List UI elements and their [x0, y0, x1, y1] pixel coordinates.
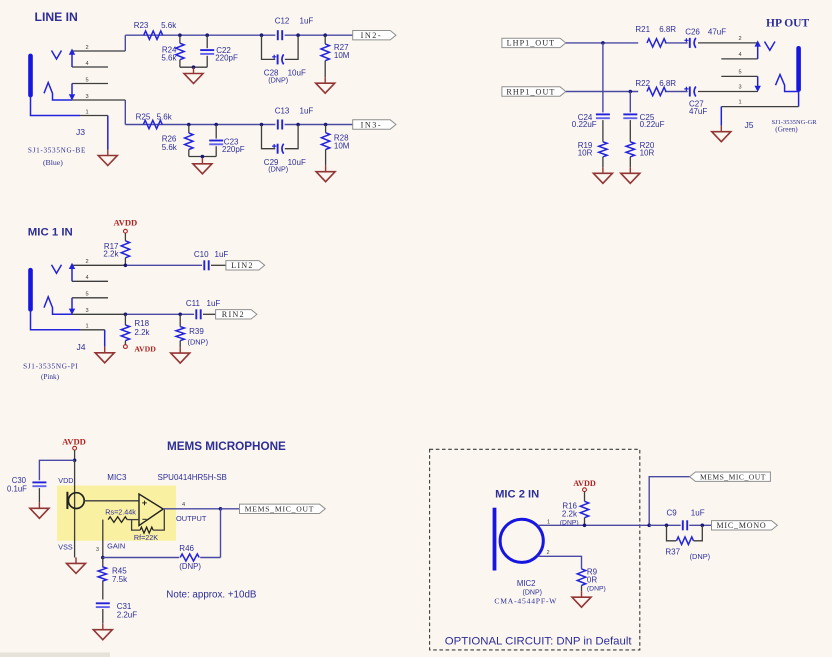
- svg-text:1: 1: [85, 109, 88, 115]
- J4 pin 2 stub: [72, 264, 125, 266]
- svg-text:OUTPUT: OUTPUT: [176, 514, 207, 523]
- svg-text:5.6k: 5.6k: [157, 113, 173, 122]
- ground C30: [38, 502, 40, 508]
- svg-text:10uF: 10uF: [288, 69, 306, 78]
- net flag RHP1_OUT: [502, 87, 566, 96]
- svg-text:2.2k: 2.2k: [134, 328, 150, 337]
- svg-text:IN2-: IN2-: [361, 31, 382, 40]
- svg-text:AVDD: AVDD: [114, 217, 138, 227]
- ground R39: [179, 347, 181, 353]
- svg-text:C9: C9: [667, 508, 678, 517]
- ground row B: [201, 158, 203, 164]
- resistor R45: [98, 558, 128, 600]
- wire VDD to VSS vertical: [74, 460, 76, 557]
- svg-text:R46: R46: [179, 544, 194, 553]
- resistor R24: [161, 35, 184, 67]
- svg-text:2.2k: 2.2k: [103, 249, 119, 258]
- capacitor C30: [7, 476, 46, 502]
- node row L junction: [601, 41, 605, 45]
- svg-text:MEMS_MIC_OUT: MEMS_MIC_OUT: [245, 505, 315, 514]
- svg-text:Rf=22K: Rf=22K: [134, 533, 158, 542]
- power AVDD mic2: [573, 479, 596, 492]
- svg-text:R21: R21: [635, 25, 650, 34]
- svg-text:1: 1: [547, 519, 550, 525]
- svg-text:OPTIONAL CIRCUIT: DNP in Defau: OPTIONAL CIRCUIT: DNP in Default: [445, 635, 633, 647]
- svg-text:(Green): (Green): [775, 126, 798, 134]
- net flag IN2-: [353, 31, 396, 40]
- wire row R main: [566, 91, 638, 93]
- J4 pin 5 stub: [72, 297, 108, 299]
- svg-text:1uF: 1uF: [207, 299, 221, 308]
- op-amp U1: [139, 494, 163, 526]
- ground R28: [325, 166, 327, 172]
- svg-text:1uF: 1uF: [215, 250, 229, 259]
- svg-text:6.8R: 6.8R: [659, 79, 676, 88]
- capacitor C10: [194, 250, 228, 271]
- svg-text:C10: C10: [194, 250, 209, 259]
- node row B junction 2: [214, 123, 218, 127]
- wire op-amp output: [163, 508, 220, 510]
- highlight box MIC3: [57, 486, 176, 541]
- J3 pin 5 stub: [72, 83, 108, 85]
- svg-text:2.2uF: 2.2uF: [117, 610, 138, 619]
- svg-text:MEMS MICROPHONE: MEMS MICROPHONE: [167, 440, 286, 453]
- svg-text:(DNP): (DNP): [179, 562, 201, 571]
- svg-text:SJ1-3535NG-PI: SJ1-3535NG-PI: [23, 362, 78, 370]
- connector J3 audio jack: [28, 54, 80, 116]
- svg-text:J4: J4: [76, 342, 85, 352]
- svg-text:7.5k: 7.5k: [112, 575, 128, 584]
- svg-text:6.8R: 6.8R: [659, 25, 676, 34]
- svg-text:0R: 0R: [587, 576, 597, 585]
- svg-text:Rs=2.44k: Rs=2.44k: [105, 507, 136, 516]
- microphone MIC2: [493, 508, 544, 571]
- net flag LHP1_OUT: [502, 38, 566, 47]
- capacitor C25 shunt: [623, 92, 664, 142]
- wire row LIN2: [125, 264, 202, 266]
- capacitor C26: [684, 28, 726, 48]
- wire row A main: [125, 34, 275, 36]
- node row A junction 4: [296, 33, 300, 37]
- net flag IN3-: [353, 120, 396, 129]
- svg-text:J3: J3: [76, 127, 85, 137]
- resistor R17: [103, 233, 129, 265]
- svg-text:2: 2: [546, 550, 549, 556]
- ground row A: [193, 68, 195, 74]
- wire output to flag: [221, 508, 240, 510]
- svg-text:3: 3: [738, 85, 741, 91]
- J3 pin 1 stub: [80, 115, 108, 117]
- ground R20: [629, 167, 631, 173]
- capacitor C31: [96, 602, 137, 624]
- svg-text:C13: C13: [275, 106, 290, 115]
- resistor R22: [635, 79, 676, 96]
- svg-text:2: 2: [738, 36, 741, 42]
- node row A junction 5: [323, 33, 327, 37]
- node R39 junction: [178, 313, 182, 317]
- J5 ring contact: [755, 75, 799, 93]
- svg-text:MIC3: MIC3: [107, 473, 127, 482]
- node R26 C23 gnd junction: [201, 155, 205, 159]
- svg-text:R18: R18: [134, 319, 149, 328]
- svg-text:4: 4: [738, 52, 741, 58]
- node R24 C22 gnd junction: [192, 65, 196, 69]
- node mic mono junction: [647, 524, 651, 528]
- svg-text:AVDD: AVDD: [134, 344, 156, 353]
- svg-text:10R: 10R: [640, 149, 655, 158]
- svg-text:VDD: VDD: [58, 476, 73, 485]
- wire GAIN row to R46: [103, 557, 179, 559]
- svg-text:IN3-: IN3-: [361, 120, 382, 129]
- J3 ring contact: [44, 83, 75, 101]
- svg-text:(DNP): (DNP): [690, 552, 711, 561]
- svg-text:1uF: 1uF: [691, 508, 705, 517]
- resistor R37 DNP bypass: [665, 525, 710, 561]
- wire MIC2 pin1 row: [538, 524, 650, 526]
- node row B junction 4: [296, 123, 300, 127]
- page edge shading bottom left: [0, 653, 110, 657]
- capacitor C22: [200, 35, 238, 67]
- svg-text:4: 4: [182, 502, 185, 508]
- svg-text:HP OUT: HP OUT: [766, 17, 809, 29]
- svg-text:1uF: 1uF: [300, 17, 314, 26]
- J5 pin 5 stub: [721, 75, 757, 77]
- wire R24 C22 bottom: [180, 66, 207, 68]
- J3 sleeve ground: [98, 116, 117, 166]
- wire node to C9: [649, 524, 681, 526]
- node row B junction 1: [187, 123, 191, 127]
- resistor R27: [321, 35, 350, 77]
- net flag LIN2: [226, 261, 265, 270]
- wire AVDD down: [74, 450, 76, 460]
- power AVDD below R18: [124, 344, 157, 353]
- node row B junction 5: [324, 123, 328, 127]
- svg-text:VSS: VSS: [58, 543, 73, 552]
- wire mic to op-amp: [84, 500, 139, 502]
- svg-text:AVDD: AVDD: [573, 479, 596, 488]
- power AVDD mems: [62, 437, 86, 451]
- node R17 junction: [124, 264, 128, 268]
- wire MIC2 pin2: [538, 556, 582, 569]
- svg-text:4: 4: [85, 61, 88, 67]
- svg-text:C26: C26: [685, 28, 700, 37]
- svg-text:0.1uF: 0.1uF: [7, 484, 27, 493]
- svg-text:Note: approx. +10dB: Note: approx. +10dB: [166, 589, 257, 600]
- svg-text:AVDD: AVDD: [62, 437, 86, 447]
- svg-text:3: 3: [85, 308, 88, 314]
- svg-text:5.6k: 5.6k: [162, 143, 178, 152]
- svg-text:MIC2: MIC2: [517, 579, 536, 588]
- J4 pin 3 stub: [72, 313, 125, 315]
- resistor R16 DNP: [560, 492, 589, 527]
- ground R27: [324, 77, 326, 83]
- capacitor C23: [209, 125, 245, 157]
- wire J3 pin2 to row A: [124, 35, 126, 51]
- svg-text:C12: C12: [275, 17, 290, 26]
- wire C10 to flag: [211, 264, 226, 266]
- capacitor C12: [275, 17, 314, 41]
- svg-text:SPU0414HR5H-SB: SPU0414HR5H-SB: [158, 473, 227, 482]
- svg-text:3: 3: [96, 547, 99, 553]
- connector J4 audio jack: [28, 268, 80, 330]
- wire row L main: [566, 42, 638, 44]
- svg-text:220pF: 220pF: [222, 145, 245, 154]
- svg-text:10M: 10M: [334, 141, 350, 150]
- capacitor C28 DNP bypass: [262, 35, 306, 84]
- svg-text:5.6k: 5.6k: [161, 54, 177, 63]
- svg-text:10R: 10R: [578, 149, 593, 158]
- resistor R19: [578, 141, 607, 168]
- svg-text:SJ1-3535NG-BE: SJ1-3535NG-BE: [28, 146, 86, 154]
- svg-text:R37: R37: [665, 547, 680, 556]
- J5 tip contact: [755, 40, 776, 59]
- wire C9 to flag: [689, 524, 711, 526]
- svg-text:4: 4: [85, 275, 88, 281]
- J3 pin 2 stub: [72, 50, 125, 52]
- resistor R28: [321, 125, 349, 166]
- resistor R9 DNP: [577, 568, 605, 593]
- ground R19: [602, 167, 604, 173]
- svg-text:10uF: 10uF: [288, 158, 306, 167]
- J3 pin 4 stub: [72, 66, 108, 68]
- node row B junction 3: [260, 123, 264, 127]
- svg-text:R23: R23: [134, 21, 149, 30]
- svg-text:R22: R22: [635, 79, 650, 88]
- J5 pin 1 stub: [721, 106, 798, 108]
- resistor R46 DNP: [179, 544, 220, 571]
- capacitor C27: [684, 87, 707, 117]
- J4 pin 1 stub: [80, 329, 105, 331]
- svg-text:10M: 10M: [334, 51, 350, 60]
- svg-text:5.6k: 5.6k: [161, 21, 177, 30]
- J5 pin 4 stub: [721, 58, 757, 60]
- svg-text:2.2k: 2.2k: [562, 509, 578, 518]
- resistor R23: [134, 21, 178, 40]
- J4 pin 4 stub: [72, 280, 108, 282]
- node row A junction 1: [178, 33, 182, 37]
- svg-text:R25: R25: [136, 113, 151, 122]
- svg-text:47uF: 47uF: [708, 28, 726, 37]
- wire row L to C26: [665, 42, 688, 44]
- svg-text:2: 2: [85, 259, 88, 265]
- svg-text:47uF: 47uF: [689, 107, 707, 116]
- node C9 left junction: [665, 524, 669, 528]
- svg-text:1: 1: [85, 324, 88, 330]
- node row A junction 3: [260, 33, 264, 37]
- wire J3 pin3 to row B: [124, 100, 126, 125]
- wire row B after C13: [285, 124, 353, 126]
- ground C31: [102, 624, 104, 630]
- svg-text:5: 5: [738, 69, 741, 75]
- net flag MEMS_MIC_OUT right: [690, 472, 771, 481]
- resistor R39 DNP: [176, 314, 208, 347]
- wire row R to jack pin 3: [698, 91, 758, 93]
- svg-text:5: 5: [85, 292, 88, 298]
- svg-text:(DNP): (DNP): [587, 586, 606, 593]
- wire MEMS_MIC_OUT down: [649, 477, 689, 526]
- svg-text:RIN2: RIN2: [222, 310, 245, 319]
- wire C11 to flag: [203, 313, 216, 315]
- J3 pin 3 stub: [72, 99, 125, 101]
- capacitor C9: [667, 508, 705, 530]
- svg-text:(DNP): (DNP): [268, 75, 288, 84]
- svg-text:0.22uF: 0.22uF: [640, 120, 665, 129]
- node output junction: [219, 507, 223, 511]
- node C30 junction: [73, 459, 77, 463]
- J4 ring contact: [44, 297, 75, 315]
- capacitor C24 shunt: [572, 43, 610, 142]
- wire R26 C23 bottom: [189, 156, 216, 158]
- svg-text:R39: R39: [189, 327, 204, 336]
- resistor R21: [635, 25, 676, 47]
- capacitor C13: [275, 106, 314, 129]
- feedback loop Rf: [132, 509, 165, 542]
- node row R junction: [629, 90, 633, 94]
- svg-text:LIN2: LIN2: [231, 261, 254, 270]
- net flag RIN2: [216, 310, 257, 319]
- svg-text:J5: J5: [744, 120, 753, 130]
- node R18 junction: [124, 313, 128, 317]
- node row A junction 2: [205, 33, 209, 37]
- J4 tip contact: [52, 263, 76, 282]
- ground R9: [581, 591, 583, 597]
- svg-text:(Pink): (Pink): [41, 373, 60, 381]
- ground VSS: [75, 557, 77, 563]
- power AVDD mic1: [114, 217, 138, 233]
- microphone symbol MIC3: [67, 492, 84, 509]
- svg-text:(Blue): (Blue): [43, 158, 63, 167]
- resistor Rs: [105, 507, 139, 522]
- svg-text:1: 1: [738, 100, 741, 106]
- optional circuit dashed box: [430, 449, 640, 650]
- wire row A after C12: [285, 34, 353, 36]
- node R16 junction: [583, 524, 587, 528]
- svg-text:LHP1_OUT: LHP1_OUT: [507, 39, 555, 48]
- connector J5 audio jack: [796, 46, 801, 107]
- wire GAIN vertical: [102, 520, 104, 558]
- J5 sleeve ground: [712, 107, 731, 142]
- net flag MEMS_MIC_OUT left: [240, 504, 326, 513]
- svg-text:2: 2: [85, 45, 88, 51]
- svg-text:MEMS_MIC_OUT: MEMS_MIC_OUT: [700, 473, 766, 482]
- svg-text:1uF: 1uF: [300, 106, 314, 115]
- J3 tip contact: [52, 49, 76, 68]
- svg-text:3: 3: [85, 94, 88, 100]
- J4 sleeve ground: [95, 330, 114, 363]
- svg-text:(DNP): (DNP): [268, 165, 288, 174]
- resistor R25: [136, 113, 173, 129]
- resistor R26: [162, 125, 193, 157]
- svg-text:MIC_MONO: MIC_MONO: [717, 521, 767, 530]
- wire row R to C27: [665, 91, 688, 93]
- node C9 right junction: [701, 524, 705, 528]
- svg-text:GAIN: GAIN: [107, 542, 125, 551]
- svg-text:LINE IN: LINE IN: [35, 10, 78, 24]
- svg-text:0.22uF: 0.22uF: [572, 120, 597, 129]
- svg-text:MIC 1 IN: MIC 1 IN: [28, 227, 73, 239]
- net flag MIC_MONO: [712, 521, 778, 530]
- svg-text:5: 5: [85, 77, 88, 83]
- wire row L to jack pin 2: [698, 42, 758, 44]
- svg-text:220pF: 220pF: [215, 54, 238, 63]
- resistor R18: [121, 314, 150, 344]
- wire row RIN2: [125, 313, 194, 315]
- wire to C30: [39, 460, 74, 480]
- svg-text:MIC 2 IN: MIC 2 IN: [495, 489, 539, 501]
- wire row B main: [125, 124, 275, 126]
- svg-text:CMA-4544PF-W: CMA-4544PF-W: [494, 596, 557, 605]
- resistor R20: [626, 141, 655, 168]
- svg-text:C11: C11: [186, 299, 201, 308]
- node GAIN junction: [101, 556, 105, 560]
- svg-text:(DNP): (DNP): [188, 337, 209, 346]
- capacitor C11: [186, 299, 220, 319]
- wire output down to R46: [220, 509, 222, 558]
- capacitor C29 DNP bypass: [262, 125, 306, 174]
- svg-text:RHP1_OUT: RHP1_OUT: [506, 87, 555, 96]
